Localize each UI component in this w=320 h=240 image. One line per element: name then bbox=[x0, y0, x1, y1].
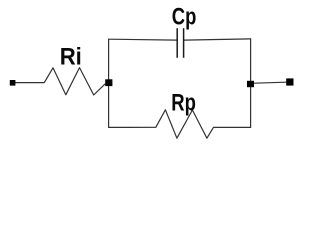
svg-text:Cp: Cp bbox=[172, 4, 197, 31]
svg-text:Rp: Rp bbox=[171, 90, 196, 117]
svg-text:Ri: Ri bbox=[60, 43, 82, 70]
